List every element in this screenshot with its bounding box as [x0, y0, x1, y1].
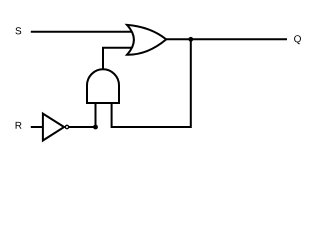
wire feedback from Q node to AND right input — [112, 39, 191, 127]
wire inverter output to junction — [69, 126, 96, 128]
label R — [16, 122, 22, 129]
junction node at inverter output — [93, 125, 98, 130]
not-gate U3 bubble — [65, 125, 68, 128]
junction node at Q feedback — [188, 37, 193, 42]
wire AND left input down to junction — [95, 101, 97, 127]
label S — [15, 27, 21, 34]
or-gate U1 — [127, 25, 166, 55]
not-gate U3 triangle — [43, 114, 64, 141]
and-gate U2 — [87, 69, 119, 103]
label Q — [294, 35, 301, 44]
wire S input to OR gate — [31, 31, 136, 33]
wire R input to inverter — [31, 126, 44, 128]
wire AND output to OR lower input — [103, 48, 136, 72]
wire OR output to Q — [164, 38, 288, 40]
